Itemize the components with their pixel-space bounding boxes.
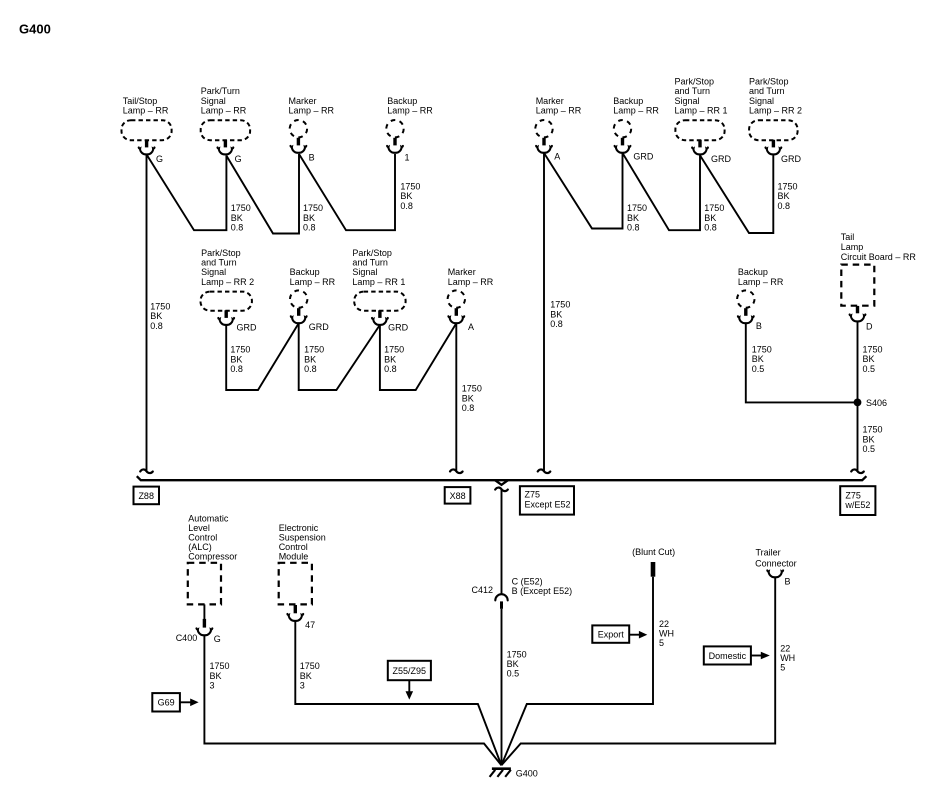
svg-text:and Turn: and Turn bbox=[749, 86, 785, 96]
wire row2 Marker ground vertical to X88 bus bbox=[450, 323, 482, 473]
svg-text:and Turn: and Turn bbox=[352, 258, 388, 268]
svg-text:BK: BK bbox=[863, 354, 875, 364]
svg-text:G400: G400 bbox=[19, 22, 51, 37]
svg-text:1750: 1750 bbox=[507, 649, 527, 659]
svg-text:0.8: 0.8 bbox=[150, 321, 163, 331]
svg-text:Marker: Marker bbox=[448, 267, 476, 277]
svg-text:1750: 1750 bbox=[400, 182, 420, 192]
wire Park/Turn to Tail/Stop pin bbox=[147, 154, 251, 232]
svg-text:D: D bbox=[866, 321, 873, 331]
svg-text:Lamp – RR 1: Lamp – RR 1 bbox=[675, 106, 728, 116]
svg-text:Level: Level bbox=[188, 523, 210, 533]
node Z75 Except E52 bbox=[520, 486, 574, 514]
wire bus center tap to C412 bbox=[495, 488, 508, 595]
svg-text:and Turn: and Turn bbox=[201, 258, 237, 268]
lamp Park/Stop and Turn Signal - RR 2 bbox=[749, 77, 802, 165]
svg-text:w/E52: w/E52 bbox=[844, 500, 870, 510]
svg-text:BK: BK bbox=[778, 191, 790, 201]
svg-text:Signal: Signal bbox=[675, 96, 700, 106]
svg-text:0.5: 0.5 bbox=[752, 364, 765, 374]
svg-text:0.8: 0.8 bbox=[304, 364, 317, 374]
component Automatic Level Control (ALC) Compressor bbox=[188, 514, 238, 605]
svg-text:BK: BK bbox=[231, 213, 243, 223]
wire row2 RR2 to Backup pin bbox=[226, 323, 299, 390]
lamp Park/Turn Signal - RR bbox=[201, 86, 250, 164]
svg-text:GRD: GRD bbox=[781, 154, 802, 164]
svg-text:0.8: 0.8 bbox=[627, 223, 640, 233]
svg-text:WH: WH bbox=[659, 629, 674, 639]
node Export bbox=[592, 625, 647, 642]
svg-text:Park/Stop: Park/Stop bbox=[201, 248, 241, 258]
svg-text:Lamp – RR: Lamp – RR bbox=[613, 106, 659, 116]
svg-text:Domestic: Domestic bbox=[709, 651, 747, 661]
svg-text:1750: 1750 bbox=[752, 344, 772, 354]
wire Tail Lamp CB D to Z75 w/E52 bus bbox=[851, 322, 882, 473]
svg-text:Signal: Signal bbox=[201, 267, 226, 277]
component Electronic Suspension Control Module bbox=[279, 523, 326, 604]
svg-text:BK: BK bbox=[752, 354, 764, 364]
svg-text:1750: 1750 bbox=[304, 345, 324, 355]
svg-text:Z75: Z75 bbox=[525, 489, 541, 499]
svg-text:Lamp – RR: Lamp – RR bbox=[290, 277, 336, 287]
svg-text:22: 22 bbox=[659, 619, 669, 629]
svg-text:G: G bbox=[235, 154, 242, 164]
svg-text:Trailer: Trailer bbox=[756, 548, 781, 558]
node G69 bbox=[152, 693, 198, 711]
svg-text:5: 5 bbox=[659, 638, 664, 648]
svg-text:GRD: GRD bbox=[388, 323, 409, 333]
svg-text:Backup: Backup bbox=[738, 267, 768, 277]
svg-text:1750: 1750 bbox=[462, 384, 482, 394]
svg-text:BK: BK bbox=[550, 309, 562, 319]
svg-text:1: 1 bbox=[405, 152, 410, 162]
svg-text:BK: BK bbox=[863, 434, 875, 444]
connector C400 pin G bbox=[176, 604, 221, 644]
svg-text:0.5: 0.5 bbox=[863, 444, 876, 454]
node Z75 w/E52 bbox=[840, 486, 875, 515]
svg-text:1750: 1750 bbox=[384, 345, 404, 355]
svg-text:Backup: Backup bbox=[387, 96, 417, 106]
svg-text:Circuit Board – RR: Circuit Board – RR bbox=[841, 252, 917, 262]
lamp Backup - RR (row2 right) bbox=[737, 267, 784, 331]
svg-text:GRD: GRD bbox=[633, 151, 654, 161]
svg-text:1750: 1750 bbox=[230, 345, 250, 355]
svg-text:G69: G69 bbox=[158, 698, 175, 708]
wire row2 RR1 to Marker pin bbox=[380, 323, 456, 390]
svg-text:Lamp – RR 2: Lamp – RR 2 bbox=[201, 277, 254, 287]
svg-text:0.8: 0.8 bbox=[400, 201, 413, 211]
svg-text:S406: S406 bbox=[866, 398, 887, 408]
svg-text:Lamp – RR: Lamp – RR bbox=[201, 106, 247, 116]
splice S406 bbox=[854, 398, 887, 408]
connector pin 47 bbox=[287, 605, 315, 630]
svg-text:Module: Module bbox=[279, 552, 309, 562]
svg-text:X88: X88 bbox=[450, 491, 466, 501]
lamp Marker - RR (left) bbox=[289, 96, 335, 162]
svg-text:1750: 1750 bbox=[550, 300, 570, 310]
lamp Park/Stop and Turn Signal - RR 1 (row2) bbox=[352, 248, 408, 333]
node Z88 bbox=[134, 487, 160, 505]
wire RR1 to Backup pin bbox=[623, 153, 725, 233]
svg-text:0.8: 0.8 bbox=[778, 201, 791, 211]
svg-text:B (Except E52): B (Except E52) bbox=[512, 586, 573, 596]
svg-text:1750: 1750 bbox=[300, 661, 320, 671]
connector C412 pins C (E52) / B (Except E52) bbox=[472, 577, 573, 609]
lamp Tail/Stop - RR bbox=[122, 96, 172, 164]
svg-text:0.8: 0.8 bbox=[462, 403, 475, 413]
svg-text:Z88: Z88 bbox=[138, 491, 154, 501]
node X88 bbox=[445, 487, 471, 504]
svg-text:BK: BK bbox=[507, 659, 519, 669]
svg-text:G: G bbox=[214, 634, 221, 644]
svg-text:0.5: 0.5 bbox=[507, 669, 520, 679]
svg-text:Signal: Signal bbox=[352, 267, 377, 277]
svg-text:Suspension: Suspension bbox=[279, 533, 326, 543]
wire row2 Backup B to splice S406 bbox=[746, 323, 855, 403]
wire ALC ground to G400 bbox=[204, 635, 501, 765]
svg-text:5: 5 bbox=[780, 663, 785, 673]
svg-text:C400: C400 bbox=[176, 633, 198, 643]
svg-text:B: B bbox=[309, 152, 315, 162]
svg-text:1750: 1750 bbox=[863, 425, 883, 435]
svg-text:Lamp – RR 2: Lamp – RR 2 bbox=[749, 106, 802, 116]
svg-text:Signal: Signal bbox=[749, 96, 774, 106]
lamp Backup - RR (right) bbox=[613, 96, 659, 161]
svg-text:Lamp – RR 1: Lamp – RR 1 bbox=[352, 277, 405, 287]
svg-text:B: B bbox=[785, 577, 791, 587]
wire Trailer Connector to G400 bbox=[501, 577, 795, 765]
svg-text:22: 22 bbox=[780, 643, 790, 653]
lamp Marker - RR (right) bbox=[535, 96, 581, 161]
svg-text:BK: BK bbox=[384, 354, 396, 364]
svg-text:BK: BK bbox=[303, 213, 315, 223]
node Domestic bbox=[704, 646, 770, 664]
svg-text:(ALC): (ALC) bbox=[188, 542, 212, 552]
svg-text:Lamp – RR: Lamp – RR bbox=[448, 277, 494, 287]
svg-text:C (E52): C (E52) bbox=[512, 577, 543, 587]
svg-text:Lamp: Lamp bbox=[841, 242, 864, 252]
svg-text:Lamp – RR: Lamp – RR bbox=[387, 106, 433, 116]
lamp Park/Stop and Turn Signal - RR 2 (row2) bbox=[201, 248, 258, 333]
wire right Marker ground vertical to Z75 bus bbox=[538, 153, 571, 473]
svg-text:Automatic: Automatic bbox=[188, 514, 229, 524]
bus ground distribution line bbox=[137, 476, 867, 485]
node Z55/Z95 bbox=[388, 661, 431, 700]
svg-text:Control: Control bbox=[279, 542, 308, 552]
svg-text:Export: Export bbox=[598, 629, 625, 639]
svg-text:Backup: Backup bbox=[290, 267, 320, 277]
wire blunt cut to G400 bbox=[501, 577, 674, 766]
svg-text:GRD: GRD bbox=[711, 154, 732, 164]
svg-text:BK: BK bbox=[627, 213, 639, 223]
svg-text:Signal: Signal bbox=[201, 96, 226, 106]
svg-text:Lamp – RR: Lamp – RR bbox=[123, 106, 169, 116]
svg-text:1750: 1750 bbox=[231, 203, 251, 213]
svg-text:0.8: 0.8 bbox=[550, 319, 563, 329]
svg-text:Lamp – RR: Lamp – RR bbox=[289, 106, 335, 116]
svg-text:Compressor: Compressor bbox=[188, 552, 237, 562]
svg-text:BK: BK bbox=[230, 354, 242, 364]
svg-text:G: G bbox=[156, 154, 163, 164]
svg-text:Park/Stop: Park/Stop bbox=[675, 77, 715, 87]
svg-text:1750: 1750 bbox=[704, 203, 724, 213]
svg-text:1750: 1750 bbox=[627, 203, 647, 213]
svg-text:WH: WH bbox=[780, 653, 795, 663]
svg-text:3: 3 bbox=[300, 681, 305, 691]
lamp Backup - RR (row2 left) bbox=[290, 267, 336, 332]
svg-text:A: A bbox=[468, 322, 474, 332]
svg-text:Backup: Backup bbox=[613, 96, 643, 106]
lamp Park/Stop and Turn Signal - RR 1 bbox=[675, 77, 732, 165]
svg-text:BK: BK bbox=[300, 671, 312, 681]
svg-text:(Blunt Cut): (Blunt Cut) bbox=[632, 547, 675, 557]
wire ESC ground to G400 bbox=[295, 621, 501, 765]
lamp Marker - RR (row2 left) bbox=[448, 267, 494, 332]
svg-text:BK: BK bbox=[704, 213, 716, 223]
svg-text:3: 3 bbox=[210, 681, 215, 691]
svg-text:G400: G400 bbox=[516, 768, 538, 778]
svg-text:Park/Turn: Park/Turn bbox=[201, 86, 240, 96]
svg-text:1750: 1750 bbox=[150, 301, 170, 311]
svg-text:Electronic: Electronic bbox=[279, 523, 319, 533]
svg-text:BK: BK bbox=[210, 671, 222, 681]
svg-text:Marker: Marker bbox=[289, 96, 317, 106]
lamp Backup - RR (left) bbox=[386, 96, 433, 162]
ground G400 bbox=[490, 768, 538, 778]
svg-text:0.8: 0.8 bbox=[384, 364, 397, 374]
svg-text:1750: 1750 bbox=[303, 203, 323, 213]
svg-text:Lamp – RR: Lamp – RR bbox=[738, 277, 784, 287]
svg-text:0.8: 0.8 bbox=[303, 223, 316, 233]
svg-text:47: 47 bbox=[305, 620, 315, 630]
svg-text:0.8: 0.8 bbox=[704, 223, 717, 233]
wire Marker to Park/Turn pin bbox=[226, 154, 323, 234]
svg-text:B: B bbox=[756, 321, 762, 331]
svg-text:Except E52: Except E52 bbox=[525, 500, 571, 510]
svg-text:Control: Control bbox=[188, 533, 217, 543]
svg-text:GRD: GRD bbox=[237, 323, 258, 333]
svg-text:Tail/Stop: Tail/Stop bbox=[123, 96, 158, 106]
svg-text:A: A bbox=[554, 151, 560, 161]
svg-text:BK: BK bbox=[400, 191, 412, 201]
component Trailer Connector pin B bbox=[755, 548, 797, 587]
wire row2 Backup to RR1 pin bbox=[299, 323, 380, 390]
svg-text:BK: BK bbox=[150, 311, 162, 321]
blunt cut lead bbox=[632, 547, 675, 577]
svg-text:and Turn: and Turn bbox=[675, 86, 711, 96]
svg-text:1750: 1750 bbox=[210, 661, 230, 671]
svg-text:Park/Stop: Park/Stop bbox=[352, 248, 392, 258]
svg-text:BK: BK bbox=[304, 354, 316, 364]
wire RR2 to RR1 pin bbox=[700, 155, 798, 233]
svg-text:Park/Stop: Park/Stop bbox=[749, 77, 789, 87]
wire C412 to G400 ground bbox=[502, 609, 527, 766]
svg-text:Marker: Marker bbox=[536, 96, 564, 106]
svg-text:Connector: Connector bbox=[755, 558, 797, 568]
svg-text:Z55/Z95: Z55/Z95 bbox=[393, 666, 427, 676]
wire Tail/Stop ground vertical to Z88 bus bbox=[140, 154, 170, 473]
svg-text:Lamp – RR: Lamp – RR bbox=[536, 106, 582, 116]
svg-text:0.5: 0.5 bbox=[863, 364, 876, 374]
svg-text:Tail: Tail bbox=[841, 232, 855, 242]
svg-text:GRD: GRD bbox=[309, 322, 330, 332]
component Tail Lamp Circuit Board - RR bbox=[841, 232, 917, 331]
svg-text:0.8: 0.8 bbox=[230, 364, 243, 374]
wire right Backup to Marker pin bbox=[544, 153, 647, 233]
svg-text:1750: 1750 bbox=[863, 344, 883, 354]
wire Backup to Marker pin bbox=[299, 154, 420, 230]
svg-text:BK: BK bbox=[462, 393, 474, 403]
svg-text:1750: 1750 bbox=[778, 182, 798, 192]
svg-text:C412: C412 bbox=[472, 585, 494, 595]
svg-text:0.8: 0.8 bbox=[231, 223, 244, 233]
